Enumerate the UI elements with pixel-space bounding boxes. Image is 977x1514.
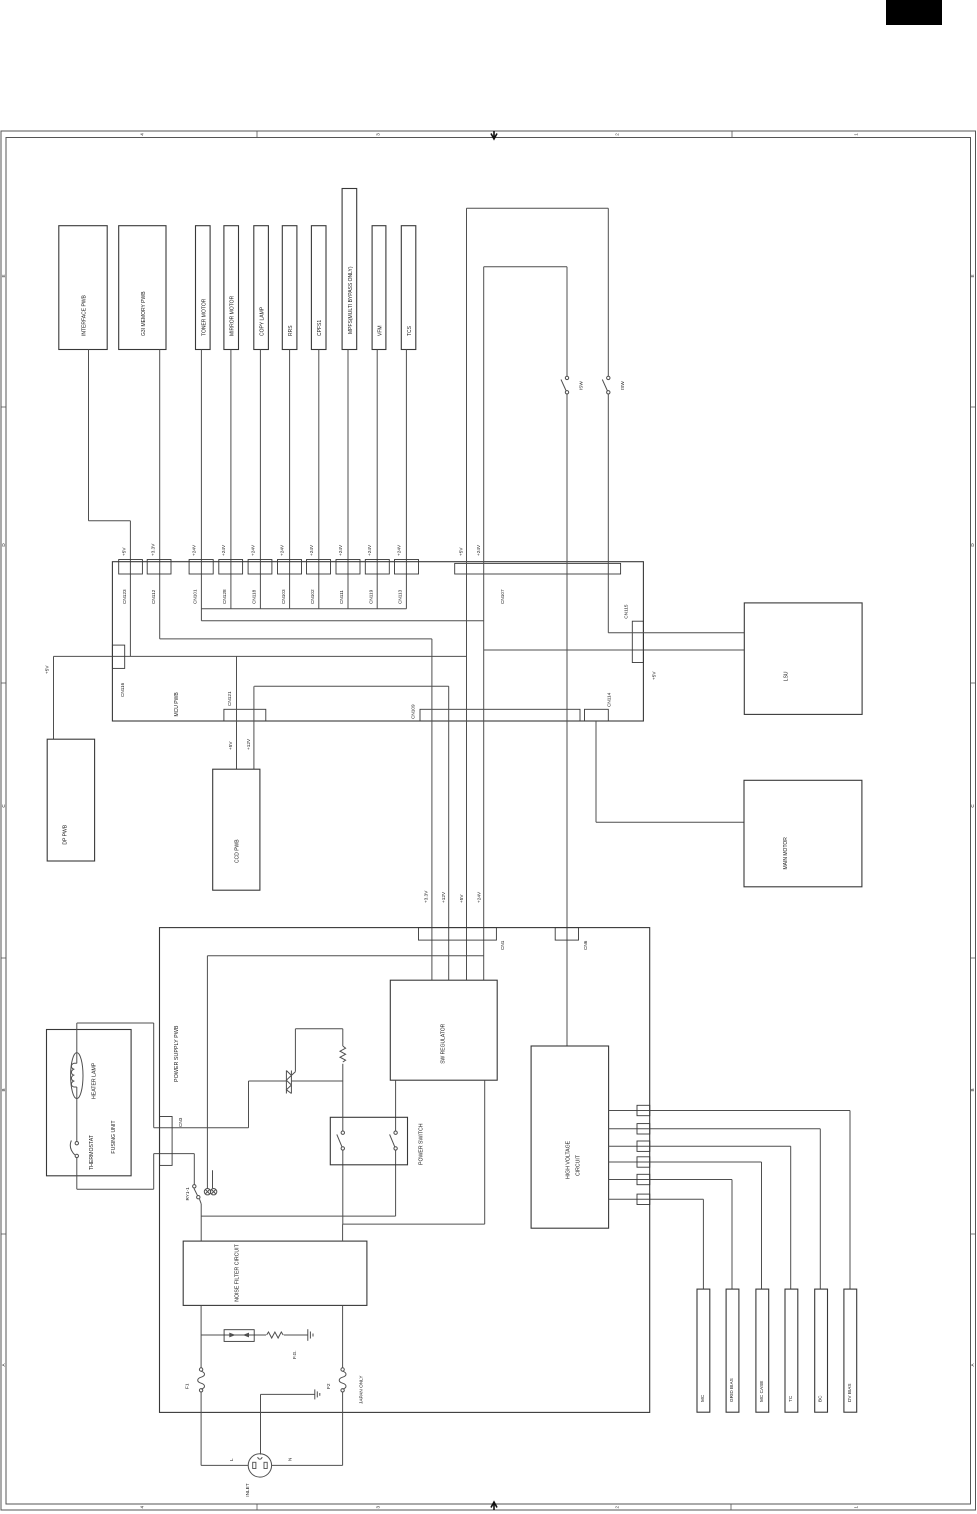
svg-text:ISW: ISW bbox=[620, 381, 625, 390]
svg-text:MC: MC bbox=[700, 1394, 705, 1402]
svg-text:CN107: CN107 bbox=[500, 589, 505, 604]
svg-text:MCU PWB: MCU PWB bbox=[174, 692, 180, 717]
svg-text:+5V: +5V bbox=[44, 665, 49, 674]
svg-text:JAPAN ONLY: JAPAN ONLY bbox=[359, 1375, 364, 1404]
svg-text:+24V: +24V bbox=[309, 544, 314, 556]
svg-text:+3.3V: +3.3V bbox=[151, 543, 156, 556]
svg-text:BC: BC bbox=[818, 1395, 823, 1402]
svg-text:CN128: CN128 bbox=[222, 589, 227, 604]
svg-text:B: B bbox=[970, 1088, 975, 1091]
svg-text:CN123: CN123 bbox=[122, 589, 127, 604]
svg-text:4: 4 bbox=[140, 1505, 145, 1508]
svg-text:CIRCUIT: CIRCUIT bbox=[575, 1154, 581, 1176]
svg-text:+5V: +5V bbox=[228, 741, 233, 750]
svg-text:DP PWB: DP PWB bbox=[63, 824, 69, 844]
svg-text:CN102: CN102 bbox=[310, 589, 315, 604]
svg-text:THERMOSTAT: THERMOSTAT bbox=[89, 1134, 95, 1170]
svg-text:CN109: CN109 bbox=[411, 704, 416, 719]
svg-text:E: E bbox=[970, 274, 975, 277]
svg-text:1: 1 bbox=[854, 1505, 859, 1508]
svg-text:HEATER LAMP: HEATER LAMP bbox=[91, 1062, 97, 1099]
svg-text:TCS: TCS bbox=[407, 325, 413, 336]
svg-text:CN3: CN3 bbox=[178, 1117, 183, 1127]
svg-text:+5V: +5V bbox=[459, 894, 464, 903]
svg-text:ISW: ISW bbox=[578, 381, 583, 390]
svg-text:4: 4 bbox=[140, 133, 145, 136]
svg-text:VFM: VFM bbox=[378, 325, 384, 336]
svg-text:+3.3V: +3.3V bbox=[424, 890, 429, 903]
svg-text:CN6: CN6 bbox=[583, 940, 588, 950]
svg-text:CN121: CN121 bbox=[227, 691, 232, 706]
svg-text:+24V: +24V bbox=[367, 544, 372, 556]
svg-text:+24V: +24V bbox=[250, 544, 255, 556]
svg-text:+5V: +5V bbox=[122, 547, 127, 556]
svg-text:LSU: LSU bbox=[783, 671, 789, 681]
svg-text:RY1-1: RY1-1 bbox=[185, 1187, 190, 1201]
svg-text:TC: TC bbox=[788, 1395, 793, 1402]
svg-text:F1: F1 bbox=[185, 1383, 190, 1389]
svg-text:GRID BIAS: GRID BIAS bbox=[729, 1378, 734, 1402]
svg-text:CN101: CN101 bbox=[193, 589, 198, 604]
svg-text:INTERFACE PWB: INTERFACE PWB bbox=[82, 294, 88, 336]
svg-text:POWER SWITCH: POWER SWITCH bbox=[418, 1123, 424, 1165]
svg-text:CN118: CN118 bbox=[252, 589, 257, 604]
svg-text:N: N bbox=[288, 1458, 293, 1461]
svg-text:HIGH VOLTAGE: HIGH VOLTAGE bbox=[565, 1140, 571, 1179]
svg-text:CN1: CN1 bbox=[500, 940, 505, 950]
svg-text:CCD PWB: CCD PWB bbox=[235, 839, 241, 863]
svg-text:3: 3 bbox=[376, 133, 381, 136]
svg-text:+24V: +24V bbox=[477, 891, 482, 903]
svg-text:MIRROR MOTOR: MIRROR MOTOR bbox=[230, 295, 236, 336]
svg-text:+24V: +24V bbox=[280, 544, 285, 556]
svg-text:POWER SUPPLY PWB: POWER SUPPLY PWB bbox=[174, 1025, 180, 1082]
svg-text:CN103: CN103 bbox=[281, 589, 286, 604]
svg-text:NOISE FILTER CIRCUIT: NOISE FILTER CIRCUIT bbox=[234, 1243, 240, 1301]
svg-text:+24V: +24V bbox=[476, 544, 481, 556]
svg-text:MPFS(MULTI BYPASS ONLY): MPFS(MULTI BYPASS ONLY) bbox=[348, 266, 354, 334]
svg-text:MC CASE: MC CASE bbox=[759, 1381, 764, 1402]
svg-text:MAIN MOTOR: MAIN MOTOR bbox=[783, 837, 789, 870]
svg-text:F.G.: F.G. bbox=[292, 1350, 297, 1359]
svg-text:FUSING UNIT: FUSING UNIT bbox=[111, 1120, 117, 1154]
svg-text:+12V: +12V bbox=[246, 738, 251, 750]
svg-text:CN116: CN116 bbox=[120, 682, 125, 697]
svg-text:CN119: CN119 bbox=[368, 589, 373, 604]
svg-text:3: 3 bbox=[376, 1505, 381, 1508]
svg-text:+24V: +24V bbox=[338, 544, 343, 556]
svg-text:TONER MOTOR: TONER MOTOR bbox=[201, 298, 207, 336]
svg-text:CN114: CN114 bbox=[607, 692, 612, 707]
svg-text:CN113: CN113 bbox=[398, 589, 403, 604]
svg-text:COPY LAMP: COPY LAMP bbox=[260, 306, 266, 336]
svg-text:1: 1 bbox=[854, 133, 859, 136]
svg-text:B: B bbox=[1, 1088, 6, 1091]
svg-text:DV BIAS: DV BIAS bbox=[847, 1384, 852, 1403]
svg-text:SW REGULATOR: SW REGULATOR bbox=[440, 1023, 446, 1063]
svg-text:+24V: +24V bbox=[396, 544, 401, 556]
svg-text:+5V: +5V bbox=[652, 671, 657, 680]
svg-text:2: 2 bbox=[615, 133, 620, 136]
svg-text:+24V: +24V bbox=[221, 544, 226, 556]
svg-text:F2: F2 bbox=[326, 1383, 331, 1389]
svg-text:+12V: +12V bbox=[441, 891, 446, 903]
svg-text:+24V: +24V bbox=[191, 544, 196, 556]
svg-text:CN112: CN112 bbox=[151, 589, 156, 604]
svg-text:CPFS1: CPFS1 bbox=[317, 320, 323, 336]
svg-text:2: 2 bbox=[615, 1505, 620, 1508]
svg-text:RRS: RRS bbox=[288, 325, 294, 336]
svg-text:+5V: +5V bbox=[459, 547, 464, 556]
svg-text:E: E bbox=[1, 274, 6, 277]
svg-text:CN115: CN115 bbox=[624, 604, 629, 619]
svg-text:G3I MEMORY PWB: G3I MEMORY PWB bbox=[141, 291, 147, 336]
svg-text:L: L bbox=[229, 1458, 234, 1461]
svg-text:CN111: CN111 bbox=[339, 590, 344, 604]
svg-text:INLET: INLET bbox=[245, 1483, 250, 1496]
